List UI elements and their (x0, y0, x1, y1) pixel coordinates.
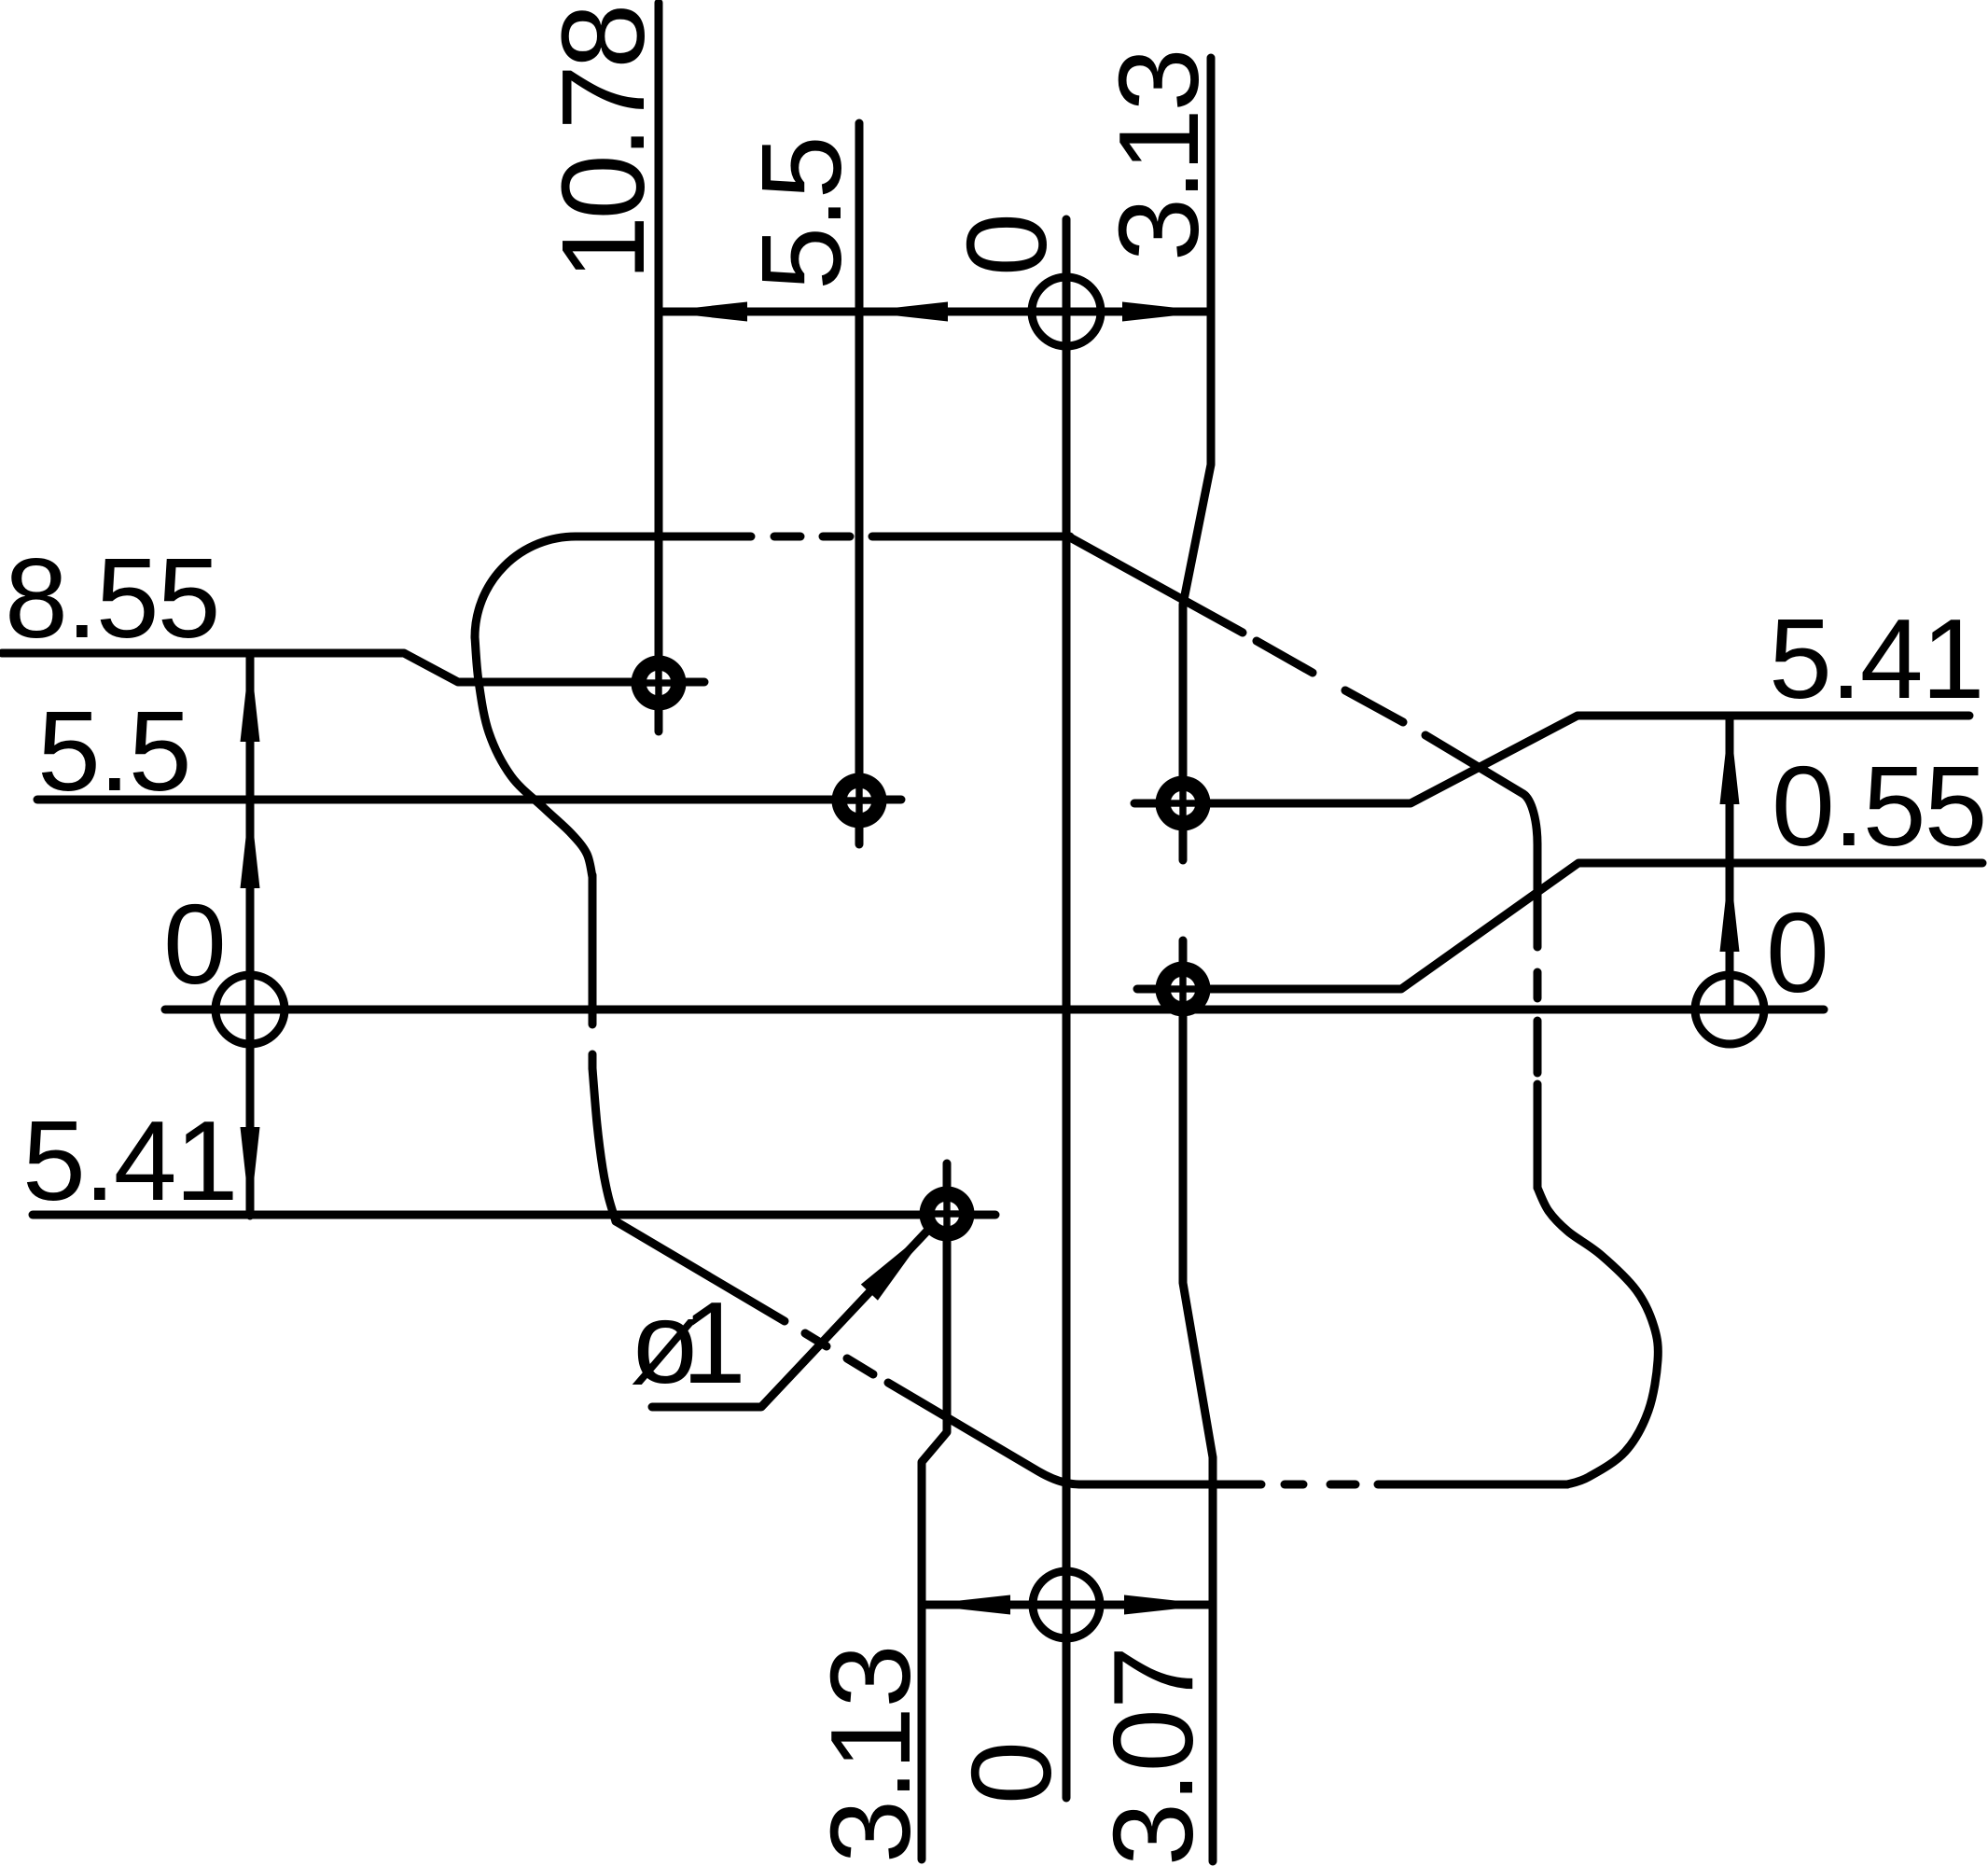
arrow at 8.55 (241, 653, 260, 742)
outline lower-left diagonal dash 1 (805, 1333, 827, 1346)
arrow at left 5.5 (241, 800, 260, 888)
leader arrowhead (861, 1228, 930, 1301)
right ordinate dimension line (1726, 716, 1734, 1010)
outline bottom edge dash 1 (1285, 1481, 1303, 1489)
outline right side bulge (1537, 1188, 1658, 1484)
top ordinate origin symbol (1032, 277, 1101, 346)
svg-text:10.78: 10.78 (537, 7, 669, 281)
svg-text:0: 0 (943, 215, 1070, 276)
arrow at top 5.5 (859, 302, 948, 322)
left ordinate dimension line (246, 653, 255, 1216)
arrow at bottom 3.07 (1124, 1595, 1213, 1615)
hole C (3.13, 5.41) (1156, 776, 1211, 831)
bottom ordinate origin symbol (1033, 1571, 1100, 1638)
outline top-right diagonal dash 1 (1257, 641, 1313, 673)
svg-text:ø1: ø1 (630, 1279, 741, 1408)
outline lower-left corner arc (592, 1068, 616, 1221)
svg-text:5.5: 5.5 (37, 688, 190, 815)
extension-label line 5.41 through hole E (33, 1211, 995, 1219)
arrow at top 3.13 (1122, 302, 1211, 322)
extension-label line 5.5 through hole B (37, 796, 901, 804)
outline top edge solid segment (576, 533, 751, 541)
hole D (3.13, 0.55) (1156, 962, 1211, 1017)
svg-text:8.55: 8.55 (5, 535, 218, 661)
outline right edge dash 2 (1534, 1021, 1542, 1073)
outline top-right diagonal dash 2 (1345, 690, 1403, 722)
leader line for hole diameter (652, 1228, 930, 1407)
svg-text:5.5: 5.5 (738, 137, 865, 290)
outline left edge short segment (589, 1054, 597, 1068)
svg-text:5.41: 5.41 (1769, 595, 1982, 722)
extension-label line right 0.55 jogged from hole D (1137, 863, 1982, 989)
hole E (3.13, 5.41) (920, 1187, 975, 1242)
outline top edge center-line dash 1 (774, 533, 800, 541)
top ordinate dimension line (659, 308, 1211, 316)
arrow at bottom 3.13 (922, 1595, 1010, 1615)
outline top-right diagonal into right edge arc (1425, 735, 1537, 844)
outline lower-left diagonal into bottom corner (888, 1383, 1079, 1484)
svg-text:5.41: 5.41 (22, 1097, 236, 1224)
extension line 3.07 jogged from hole D (1183, 940, 1213, 1861)
outline left edge solid (589, 875, 597, 1024)
outline top edge center-line dash 2 (823, 533, 850, 541)
extension line 3.13 jogged to hole C (1183, 58, 1211, 860)
baseline ordinate dimension line horizontal (165, 1006, 1824, 1014)
arrow at left 5.41 (241, 1127, 260, 1216)
outline right edge dash 1 (1534, 972, 1542, 998)
svg-text:0.55: 0.55 (1772, 743, 1985, 870)
extension line 10.78 through hole A (655, 3, 663, 731)
arrow at right 0.55 (1720, 863, 1740, 952)
outline left S-curve (475, 637, 592, 877)
svg-text:3.13: 3.13 (807, 1646, 934, 1863)
center ordinate dimension line vertical (1063, 219, 1071, 1798)
extension line 5.5 through hole B (855, 123, 864, 844)
outline right edge solid lower (1534, 1084, 1542, 1188)
bottom ordinate dimension line (922, 1601, 1213, 1609)
arrow at 10.78 (659, 302, 747, 322)
extension line bottom 3.13 jogged from hole E (922, 1163, 947, 1859)
outline lower-left diagonal dash 2 (847, 1358, 873, 1374)
svg-text:0: 0 (948, 1743, 1075, 1804)
svg-text:3.07: 3.07 (1090, 1647, 1216, 1866)
outline right edge solid (1534, 844, 1542, 947)
svg-text:3.13: 3.13 (1095, 51, 1222, 261)
outline bottom edge solid right (1378, 1481, 1567, 1489)
svg-text:0: 0 (163, 881, 225, 1008)
outline lower-left diagonal solid (616, 1221, 785, 1321)
outline top-left corner arc (475, 536, 576, 637)
outline top-right diagonal solid (1070, 537, 1243, 633)
outline top edge solid segment right (872, 533, 1070, 541)
extension-label line 8.55 jogged to hole A (2, 653, 704, 682)
hole B (5.5, 5.5) (832, 773, 887, 829)
arrow at right 5.41 (1720, 716, 1740, 804)
hole A (10.78, 8.55) (632, 656, 687, 711)
svg-text:0: 0 (1766, 889, 1828, 1016)
right ordinate origin symbol (1695, 975, 1764, 1044)
outline bottom edge dash 2 (1330, 1481, 1355, 1489)
left ordinate origin symbol (215, 975, 285, 1044)
extension-label line right 5.41 jogged from hole C (1134, 716, 1969, 803)
outline bottom edge solid left (1079, 1481, 1261, 1489)
